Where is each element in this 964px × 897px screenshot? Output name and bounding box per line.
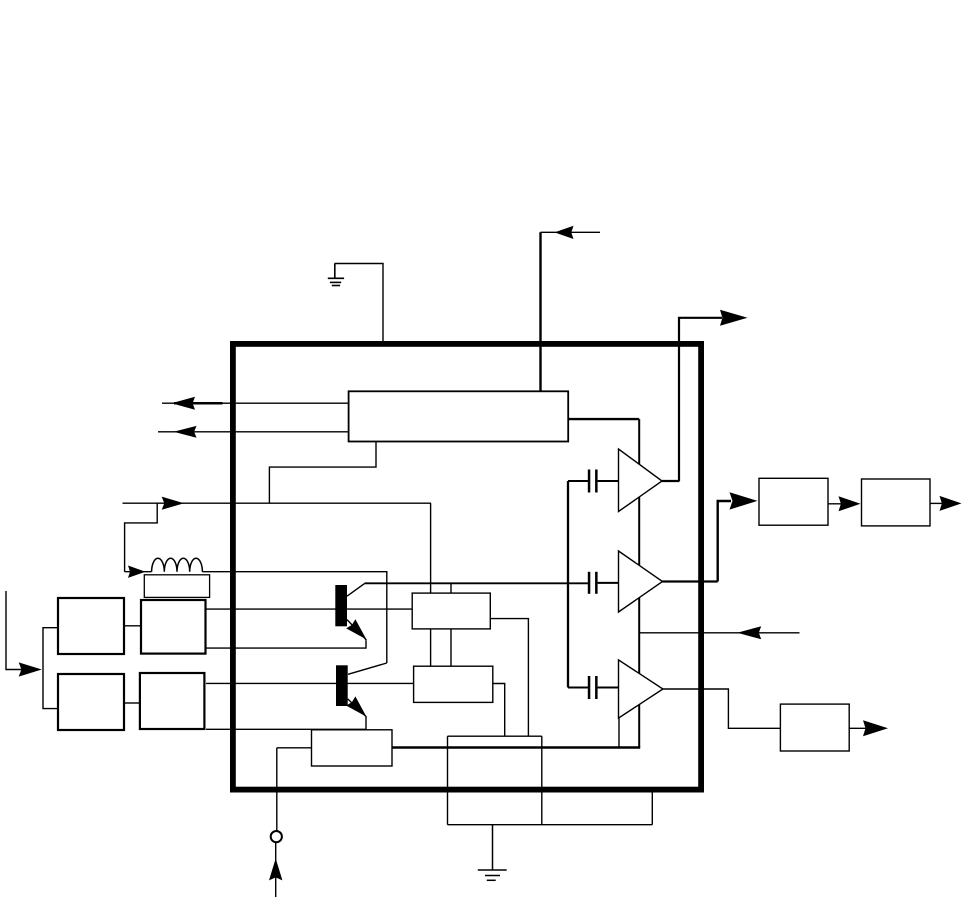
wire top input with left arrow into pin — [541, 231, 601, 233]
wire bias left leg to bottom pad — [447, 736, 449, 825]
wire bottom pad horizontal — [448, 824, 653, 826]
arrowhead coil input (points right) — [128, 566, 146, 578]
block D (outside left lower-right) — [140, 673, 205, 729]
terminal circle — [271, 831, 282, 842]
wire A to B — [125, 625, 141, 627]
arrowhead Q1 emitter (points down-right) — [346, 619, 366, 639]
wire amp1 output up through top border — [679, 318, 722, 481]
block I (right output chain 2) — [862, 479, 931, 526]
wire Q2 collector diagonal — [348, 663, 387, 674]
wire amp3 lower vertex to bottom line — [618, 718, 620, 747]
wire block F right exit down — [490, 619, 528, 737]
arrowhead Q2 emitter (points down-right) — [346, 696, 366, 716]
transistor Q1 base bar — [335, 585, 347, 626]
op-amp A2 (limiter amp middle) — [619, 551, 663, 612]
wire bias bottom tee — [448, 735, 542, 737]
wire Q2 emitter diagonal — [348, 699, 367, 717]
wire detector bottom tap down-left to input line — [269, 442, 376, 504]
wire coil to Q2 collector net — [202, 572, 386, 663]
wire vertical bus behind amps — [638, 419, 640, 747]
arrowhead external input (points up) — [269, 858, 282, 880]
wire amp2 output through border — [663, 580, 718, 582]
wire block E left to terminal pin — [277, 747, 312, 749]
arrowhead box2 output (points right) — [940, 496, 962, 511]
wire mid-right input through border to amp bus — [640, 632, 800, 634]
arrowhead top input (points left) — [555, 226, 574, 239]
wire C2 to amp2 — [598, 582, 619, 584]
transistor Q2 base bar — [336, 665, 348, 706]
op-amp A1 (limiter amp top) — [619, 449, 663, 512]
wire amp3 output through border — [663, 689, 781, 728]
wire box3 output — [849, 727, 868, 729]
block A (outside left upper-left) — [58, 598, 124, 654]
coil core box — [144, 575, 209, 598]
wire stub cap-feed line to block F — [450, 583, 452, 593]
wire main input down to block F — [430, 503, 432, 593]
arrowhead main input (points right) — [162, 497, 184, 510]
wire Q1 collector diagonal — [347, 584, 365, 597]
block J (bottom right output) — [780, 704, 849, 751]
capacitor C2 plates — [588, 572, 591, 594]
op-amp A3 (limiter amp bottom) — [619, 660, 663, 718]
wire external up-arrow line — [275, 843, 277, 897]
arrowhead left input (points right) — [19, 662, 42, 676]
block F (bias upper) — [412, 593, 490, 629]
wire box1 to box2 — [828, 503, 845, 505]
wire stub into coil — [125, 571, 152, 573]
wire detector bold output right, down behind limiter amps — [568, 418, 639, 420]
wire C3 to amp3 — [598, 687, 619, 689]
IC boundary box U1 — [233, 344, 701, 790]
capacitor C1 plates — [588, 470, 591, 493]
wire block E bold output to amp bus — [392, 746, 640, 748]
wire Q2 base from block D through border to block G — [206, 682, 414, 684]
wire amp2 output up to demod box — [718, 501, 731, 582]
capacitor input rail — [567, 481, 569, 688]
wire Q2 emitter return to block D — [206, 717, 366, 729]
inductor L1 (4 humps) — [152, 558, 203, 572]
wire box2 output — [930, 502, 945, 504]
ground (bottom) — [478, 825, 507, 881]
wire input branch step down to coil — [125, 503, 158, 572]
wire Q1 collector to capacitor rail — [365, 582, 589, 584]
arrowhead output 1 (points left) — [172, 397, 196, 410]
block C (outside left lower-left) — [58, 674, 124, 730]
arrowhead top right output (points right) — [720, 310, 748, 326]
capacitor C1 feed wire — [568, 480, 588, 482]
arrowhead into box1 (points right) — [730, 492, 758, 509]
capacitor C3 plates — [588, 676, 591, 699]
wire ground stub to top border — [335, 264, 384, 342]
arrowhead box1 to box2 (points right) — [839, 496, 861, 511]
wire main input line — [123, 502, 432, 504]
block H (right output chain 1) — [759, 478, 828, 525]
wire terminal vertical through border — [276, 748, 278, 831]
wire Q1 emitter return to block B — [206, 640, 366, 648]
wire Q1 emitter diagonal — [347, 620, 367, 641]
wire block G right exit down — [493, 684, 505, 737]
arrowhead box3 output (points right) — [863, 720, 888, 736]
wire far-left dangling input — [6, 591, 22, 670]
wire Q1 base from block B through border to block F — [206, 608, 412, 610]
wire vertical pin down to detector box — [539, 232, 541, 392]
wire F-G link left — [430, 629, 432, 666]
wire amp1 output stub — [662, 480, 680, 482]
block G (bias lower) — [414, 666, 493, 702]
block E (bottom left inner) — [312, 730, 393, 766]
wire detector output 1 (upper left) — [162, 402, 349, 404]
arrowhead mid-right input (points left) — [737, 626, 761, 639]
wire C to D — [125, 702, 140, 704]
wire F-G link right — [450, 629, 452, 666]
detector block (wide box) — [349, 391, 569, 441]
capacitor C3 feed wire — [568, 687, 588, 689]
wire bottom pad right leg up to border — [651, 790, 653, 825]
arrowhead output 2 (points left) — [174, 426, 197, 438]
wire detector output 2 (lower left) — [158, 431, 349, 433]
wire left input tee to boxes A and C — [43, 628, 57, 709]
ground (top, near AGC pin) — [328, 264, 344, 286]
block B (outside left upper-right) — [141, 600, 206, 654]
wire bias right leg to bottom pad — [541, 736, 543, 825]
wire C1 to amp1 — [598, 480, 619, 482]
